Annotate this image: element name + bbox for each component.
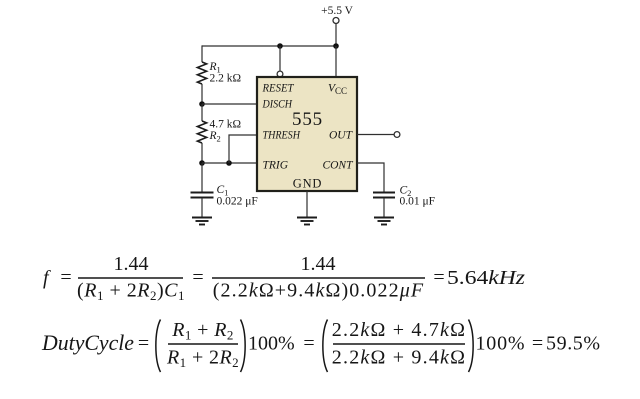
wire top rail to R1 — [201, 45, 203, 62]
wire thresh tap — [229, 135, 257, 163]
reset pin open terminal — [277, 71, 283, 77]
wire C2 to ground — [383, 198, 385, 217]
ground below C1 — [192, 218, 212, 225]
out open terminal — [394, 132, 400, 138]
junction top rail / reset — [277, 43, 283, 49]
svg-text:0.022 μF: 0.022 μF — [217, 196, 258, 208]
svg-text:0.01 μF: 0.01 μF — [400, 196, 436, 208]
junction thresh tap — [226, 160, 232, 166]
svg-text:=: = — [192, 267, 203, 289]
capacitor C2 — [373, 192, 395, 194]
svg-text:DutyCycle: DutyCycle — [41, 330, 134, 355]
svg-text:=: = — [532, 333, 543, 355]
wire R2 to trig node — [201, 143, 203, 163]
wire disch — [202, 103, 257, 105]
svg-text:+5.5 V: +5.5 V — [321, 5, 354, 17]
svg-text:DISCH: DISCH — [262, 99, 293, 111]
svg-text:R1 + R2: R1 + R2 — [171, 319, 234, 343]
equation 2: fraction bar 1 — [168, 343, 238, 345]
svg-text:2.2kΩ + 9.4kΩ: 2.2kΩ + 9.4kΩ — [332, 347, 466, 369]
svg-text:100%: 100% — [476, 333, 526, 355]
capacitor C1 — [191, 192, 214, 194]
svg-text:2.2 kΩ: 2.2 kΩ — [210, 73, 242, 85]
wire supply to top rail — [335, 24, 337, 46]
svg-text:1.44: 1.44 — [301, 253, 336, 275]
equation 1: fraction bar 1 — [78, 277, 183, 279]
wire gnd pin — [306, 191, 308, 217]
ground below chip — [297, 218, 317, 225]
wire disch node to R2 — [201, 104, 203, 121]
svg-text:=: = — [60, 267, 71, 289]
equation 2: fraction bar 2 — [333, 343, 465, 345]
svg-text:RESET: RESET — [262, 83, 295, 95]
wire trig — [202, 162, 257, 164]
resistor R2 — [197, 121, 206, 143]
svg-text:(R1 + 2R2)C1: (R1 + 2R2)C1 — [77, 280, 185, 304]
wire trig node to C1 — [201, 163, 203, 192]
wire out — [357, 134, 394, 136]
ground below C2 — [374, 218, 394, 225]
svg-text:(2.2kΩ+9.4kΩ)0.022μF: (2.2kΩ+9.4kΩ)0.022μF — [213, 280, 424, 302]
svg-text:CONT: CONT — [322, 160, 354, 172]
junction disch node — [199, 101, 205, 107]
supply terminal — [333, 18, 339, 24]
svg-text:=: = — [303, 333, 314, 355]
equation 2: big right paren 2 — [469, 320, 474, 373]
svg-text:GND: GND — [293, 177, 322, 191]
op-amp U1 555 timer body — [257, 77, 357, 191]
equation 2: big right paren 1 — [241, 320, 246, 373]
svg-text:555: 555 — [292, 109, 323, 130]
svg-text:59.5%: 59.5% — [546, 333, 601, 355]
wire C1 to ground — [201, 198, 203, 217]
wire top rail — [202, 45, 336, 47]
svg-text:R1 + 2R2: R1 + 2R2 — [166, 347, 239, 371]
equation 1: fraction bar 2 — [212, 277, 425, 279]
wire R1 to disch node — [201, 84, 203, 104]
svg-text:TRIG: TRIG — [263, 160, 289, 172]
svg-text:THRESH: THRESH — [263, 130, 301, 142]
svg-text:=: = — [433, 267, 444, 289]
svg-text:4.7 kΩ: 4.7 kΩ — [210, 119, 242, 131]
svg-text:R2: R2 — [209, 130, 221, 144]
wire reset drop — [279, 46, 281, 71]
junction trig node — [199, 160, 205, 166]
svg-text:OUT: OUT — [329, 130, 354, 142]
resistor R1 — [197, 62, 206, 84]
svg-text:100%: 100% — [248, 333, 295, 355]
svg-text:f: f — [43, 267, 51, 289]
equation 2: big left paren 1 — [156, 320, 161, 373]
junction top rail / vcc — [333, 43, 339, 49]
svg-text:2.2kΩ + 4.7kΩ: 2.2kΩ + 4.7kΩ — [332, 319, 466, 341]
svg-text:1.44: 1.44 — [114, 253, 149, 275]
svg-text:5.64kHz: 5.64kHz — [447, 267, 525, 289]
wire cont — [357, 163, 384, 192]
svg-text:=: = — [138, 333, 149, 355]
wire vcc drop — [335, 46, 337, 77]
equation 2: big left paren 2 — [323, 320, 328, 373]
